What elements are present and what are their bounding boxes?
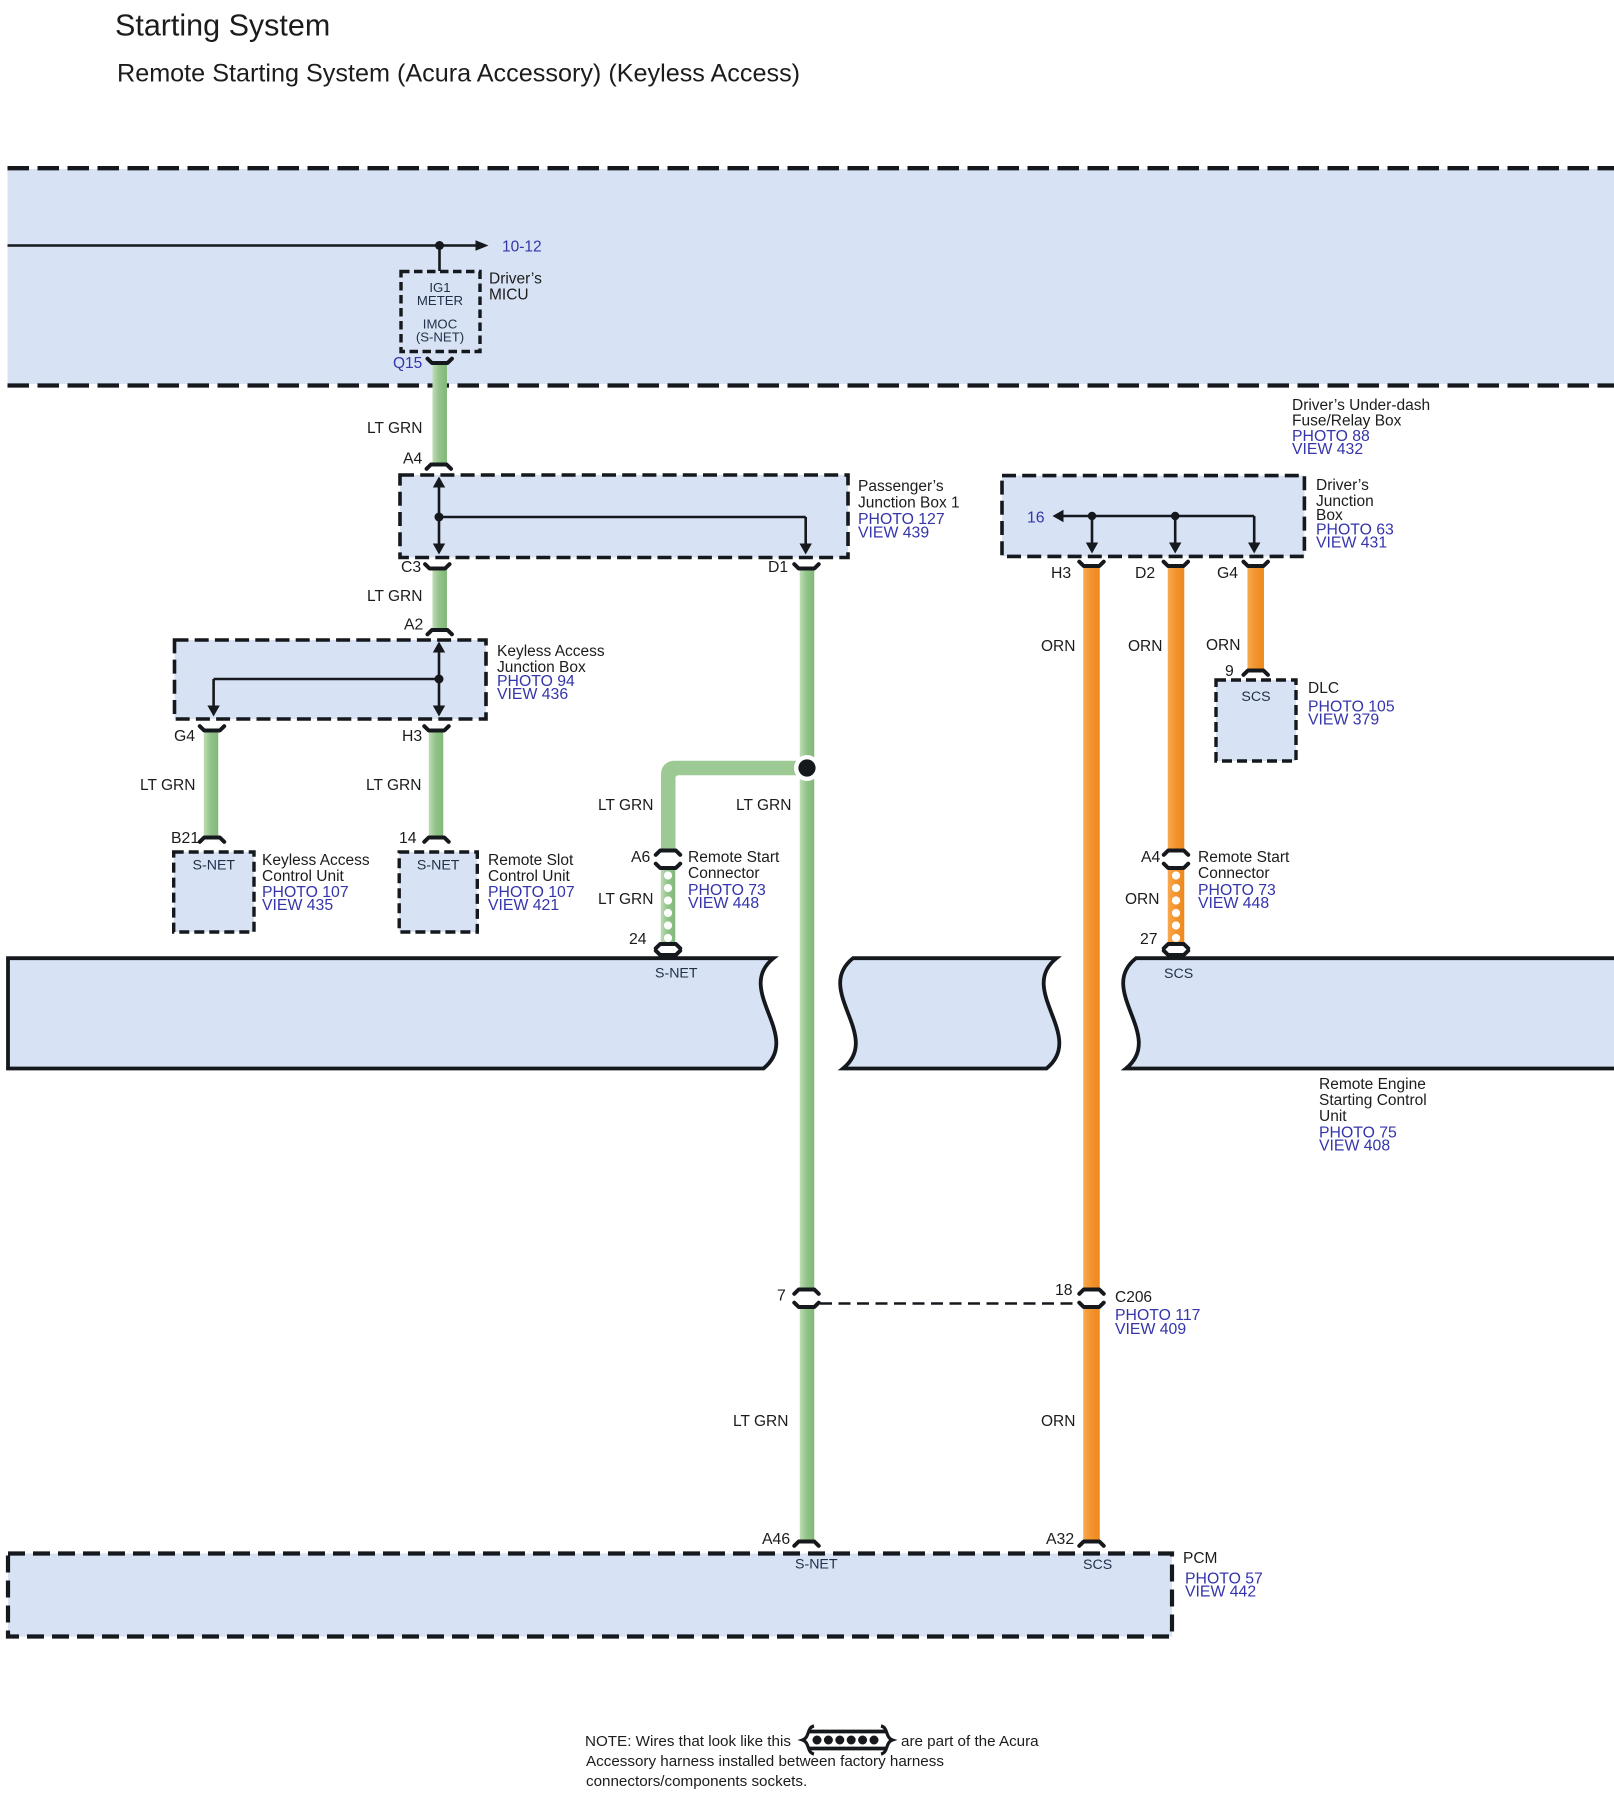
svg-text:Starting Control: Starting Control <box>1319 1092 1427 1109</box>
svg-text:VIEW 431: VIEW 431 <box>1316 535 1387 552</box>
svg-text:Keyless Access: Keyless Access <box>497 643 605 660</box>
svg-text:LT GRN: LT GRN <box>736 797 791 814</box>
svg-text:A6: A6 <box>631 849 651 866</box>
svg-text:VIEW 421: VIEW 421 <box>488 897 559 914</box>
svg-text:VIEW 379: VIEW 379 <box>1308 712 1379 729</box>
svg-text:NOTE: Wires that look like thi: NOTE: Wires that look like this <box>585 1733 791 1750</box>
svg-text:VIEW 442: VIEW 442 <box>1185 1584 1256 1601</box>
svg-text:connectors/components sockets.: connectors/components sockets. <box>586 1773 807 1790</box>
svg-text:LT GRN: LT GRN <box>367 588 422 605</box>
svg-text:7: 7 <box>777 1288 786 1305</box>
svg-text:Unit: Unit <box>1319 1108 1347 1125</box>
svg-text:S-NET: S-NET <box>655 966 698 982</box>
svg-text:S-NET: S-NET <box>193 858 236 874</box>
svg-text:D2: D2 <box>1135 565 1155 582</box>
svg-text:Remote Slot: Remote Slot <box>488 852 574 869</box>
svg-text:Starting System: Starting System <box>115 9 330 43</box>
svg-text:ORN: ORN <box>1128 638 1162 655</box>
svg-text:ORN: ORN <box>1041 638 1075 655</box>
svg-text:A4: A4 <box>1141 849 1161 866</box>
svg-text:Remote Start: Remote Start <box>1198 849 1290 866</box>
svg-text:Q15: Q15 <box>393 355 422 372</box>
svg-text:S-NET: S-NET <box>417 858 460 874</box>
svg-text:VIEW 448: VIEW 448 <box>688 895 759 912</box>
svg-text:24: 24 <box>629 931 647 948</box>
svg-text:METER: METER <box>417 293 463 308</box>
svg-text:Remote Starting System (Acura: Remote Starting System (Acura Accessory)… <box>117 60 800 88</box>
svg-text:LT GRN: LT GRN <box>140 777 195 794</box>
svg-text:LT GRN: LT GRN <box>366 777 421 794</box>
svg-text:Connector: Connector <box>688 865 760 882</box>
svg-text:MICU: MICU <box>489 287 529 304</box>
svg-text:A46: A46 <box>762 1531 790 1548</box>
svg-text:VIEW 436: VIEW 436 <box>497 686 568 703</box>
svg-text:DLC: DLC <box>1308 680 1339 697</box>
svg-text:14: 14 <box>399 830 417 847</box>
svg-text:H3: H3 <box>1051 565 1071 582</box>
svg-text:PCM: PCM <box>1183 1550 1217 1567</box>
svg-text:LT GRN: LT GRN <box>733 1413 788 1430</box>
svg-text:LT GRN: LT GRN <box>598 891 653 908</box>
svg-text:Connector: Connector <box>1198 865 1270 882</box>
svg-text:ORN: ORN <box>1125 891 1159 908</box>
svg-text:Passenger’s: Passenger’s <box>858 478 944 495</box>
svg-text:Keyless Access: Keyless Access <box>262 852 370 869</box>
svg-text:Remote Engine: Remote Engine <box>1319 1076 1426 1093</box>
svg-text:(S-NET): (S-NET) <box>416 330 464 345</box>
svg-text:Driver’s Under-dash: Driver’s Under-dash <box>1292 397 1430 414</box>
svg-text:ORN: ORN <box>1041 1413 1075 1430</box>
svg-text:LT GRN: LT GRN <box>367 420 422 437</box>
svg-text:VIEW 409: VIEW 409 <box>1115 1321 1186 1338</box>
svg-text:18: 18 <box>1055 1282 1073 1299</box>
svg-text:Driver’s: Driver’s <box>1316 477 1369 494</box>
svg-text:A32: A32 <box>1046 1531 1074 1548</box>
svg-text:Junction Box 1: Junction Box 1 <box>858 495 960 512</box>
svg-text:SCS: SCS <box>1241 689 1270 705</box>
svg-text:VIEW 439: VIEW 439 <box>858 525 929 542</box>
svg-text:Remote Start: Remote Start <box>688 849 780 866</box>
svg-text:G4: G4 <box>1217 565 1238 582</box>
svg-text:A4: A4 <box>403 451 423 468</box>
svg-text:16: 16 <box>1027 510 1045 527</box>
svg-text:SCS: SCS <box>1164 966 1193 982</box>
svg-text:C206: C206 <box>1115 1289 1152 1306</box>
svg-text:SCS: SCS <box>1083 1557 1112 1573</box>
svg-text:27: 27 <box>1140 931 1158 948</box>
svg-text:VIEW 435: VIEW 435 <box>262 897 333 914</box>
svg-text:10-12: 10-12 <box>502 239 542 256</box>
svg-text:LT GRN: LT GRN <box>598 797 653 814</box>
svg-text:are part of the Acura: are part of the Acura <box>901 1733 1039 1750</box>
svg-text:S-NET: S-NET <box>795 1557 838 1573</box>
svg-text:Control Unit: Control Unit <box>488 868 571 885</box>
svg-text:VIEW 448: VIEW 448 <box>1198 895 1269 912</box>
svg-text:ORN: ORN <box>1206 637 1240 654</box>
svg-text:VIEW 432: VIEW 432 <box>1292 441 1363 458</box>
svg-text:G4: G4 <box>174 728 195 745</box>
svg-text:VIEW 408: VIEW 408 <box>1319 1138 1390 1155</box>
svg-text:Driver’s: Driver’s <box>489 271 542 288</box>
svg-text:9: 9 <box>1225 663 1234 680</box>
svg-text:D1: D1 <box>768 559 788 576</box>
svg-text:H3: H3 <box>402 728 422 745</box>
svg-text:Accessory harness installed be: Accessory harness installed between fact… <box>586 1753 944 1770</box>
svg-text:B21: B21 <box>171 830 199 847</box>
svg-text:Control Unit: Control Unit <box>262 868 345 885</box>
svg-text:C3: C3 <box>401 559 421 576</box>
svg-text:A2: A2 <box>404 617 423 634</box>
